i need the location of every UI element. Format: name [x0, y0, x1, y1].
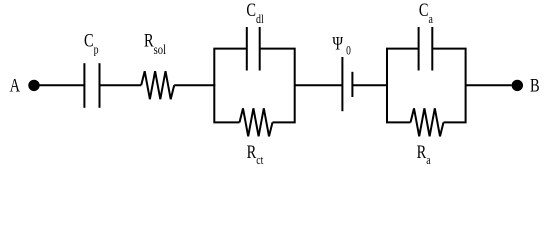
node A [10, 74, 40, 95]
svg-text:Ca: Ca [419, 0, 433, 27]
svg-text:A: A [10, 74, 21, 95]
wire (right parallel block outline) [387, 48, 466, 124]
svg-text:Ψ0: Ψ0 [332, 32, 351, 57]
wire [40, 84, 85, 86]
battery cell Psi0 [332, 32, 352, 111]
svg-text:Cdl: Cdl [246, 0, 263, 27]
wire [174, 84, 215, 86]
capacitor Ca [419, 0, 433, 70]
capacitor Cdl [246, 0, 263, 70]
capacitor Cp [84, 30, 100, 108]
svg-text:Rsol: Rsol [144, 30, 167, 58]
wire (left parallel block outline) [214, 48, 294, 124]
svg-text:Cp: Cp [84, 30, 99, 57]
resistor Rct [240, 108, 273, 167]
wire [352, 84, 388, 86]
svg-text:B: B [530, 75, 540, 96]
resistor Ra [411, 108, 444, 167]
wire [466, 84, 512, 86]
wire [100, 84, 142, 86]
resistor Rsol [141, 30, 174, 100]
svg-text:Ra: Ra [417, 141, 431, 167]
wire [295, 84, 343, 86]
svg-text:Rct: Rct [247, 141, 264, 167]
node B [512, 75, 540, 96]
